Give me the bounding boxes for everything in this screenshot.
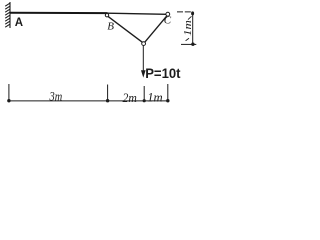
member D-C — [145, 16, 167, 42]
force P arrowhead — [141, 70, 146, 77]
hinge D — [142, 42, 146, 46]
right dim bottom dot — [191, 43, 194, 46]
hinge B — [105, 14, 108, 17]
right dim top dot — [191, 11, 194, 15]
svg-text:P=10t: P=10t — [145, 65, 181, 81]
hinge C — [166, 12, 170, 16]
beam segment B to C — [108, 13, 167, 14]
force P line — [142, 46, 144, 72]
right dim top arrow tick — [188, 16, 192, 19]
fixed support wall at A — [5, 2, 10, 28]
right dim top tick — [177, 11, 192, 13]
svg-text:A: A — [15, 17, 23, 29]
beam segment A to B — [10, 12, 108, 14]
right dim vertical line — [192, 13, 194, 44]
svg-text:1m: 1m — [182, 20, 194, 36]
tick at P — [143, 86, 145, 101]
tick at B — [107, 85, 109, 101]
svg-text:2m: 2m — [123, 90, 137, 105]
tick at A — [8, 84, 10, 101]
right dim bottom tick — [181, 43, 196, 45]
svg-text:B: B — [107, 20, 114, 32]
tick at C — [167, 84, 169, 101]
dot at P tick — [143, 99, 146, 102]
member B-D — [108, 17, 142, 43]
right dim bottom arrow tick — [186, 38, 189, 41]
dot at B tick — [106, 99, 109, 102]
svg-text:C: C — [164, 14, 172, 26]
svg-text:3m: 3m — [49, 89, 62, 104]
dot at A tick — [7, 99, 10, 102]
dot at C tick — [166, 99, 169, 102]
svg-text:1m: 1m — [147, 89, 163, 104]
bottom dim line — [8, 100, 170, 102]
